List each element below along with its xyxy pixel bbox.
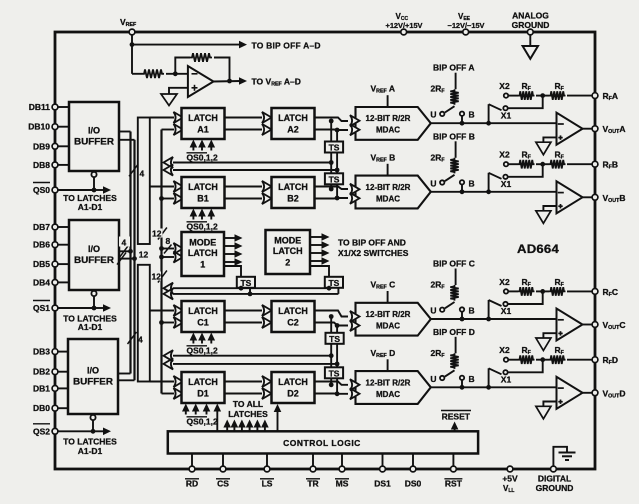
pin VOUT B: [592, 193, 625, 204]
resistor 2RF (B): [450, 158, 458, 174]
svg-text:A1: A1: [197, 125, 209, 135]
wire C1 latch input upper: [150, 310, 174, 312]
tri-state TS (D): [325, 367, 343, 378]
wire op-amp A output: [583, 128, 596, 130]
latch D1: [182, 372, 225, 403]
bus label 12 (upper): [152, 228, 167, 240]
label TO LATCHES A1-D1 (1): [63, 193, 117, 212]
node RF junction (A): [540, 93, 545, 98]
label 2RF (B): [431, 152, 446, 163]
svg-text:DB1: DB1: [33, 383, 50, 393]
pin +5V VLL: [502, 466, 518, 494]
pin MS: [335, 466, 349, 488]
svg-text:DB7: DB7: [33, 222, 50, 232]
wire buffer 2 readback circle: [91, 291, 96, 308]
svg-text:C2: C2: [287, 318, 299, 328]
pin DB7: [33, 222, 69, 232]
resistor feedback R: [190, 53, 212, 62]
wire QS strobe arrows D1: [182, 404, 221, 432]
pin VREF: [120, 17, 137, 35]
svg-text:LATCH: LATCH: [278, 113, 308, 123]
svg-text:QS2: QS2: [33, 426, 50, 436]
wire X1 to RF junction (D): [508, 360, 543, 373]
wire BIP OFF B to 2RF: [455, 141, 457, 158]
wire feedback up: [175, 58, 190, 74]
svg-text:1: 1: [200, 260, 205, 270]
svg-text:X2: X2: [499, 150, 510, 160]
resistor RF1 (A): [518, 81, 535, 100]
node U1 output junction: [227, 79, 232, 84]
svg-text:DB5: DB5: [33, 259, 50, 269]
ground (op-amp C): [536, 338, 551, 351]
MDAC D (12-bit R/2R): [350, 371, 431, 404]
wire U1 output TO VREF A-D: [214, 77, 248, 85]
svg-text:B2: B2: [287, 194, 299, 204]
label VREF D: [371, 348, 396, 359]
bus readback A/B line2: [164, 164, 338, 175]
node X2 contact (D): [499, 345, 510, 362]
bus label 12 (middle): [139, 250, 149, 260]
wire op-amp C output: [583, 324, 596, 326]
wire QS2 to latches arrow: [58, 428, 111, 436]
wire op-amp A + to ground: [543, 137, 556, 142]
svg-text:12-BIT R/2R: 12-BIT R/2R: [366, 378, 411, 387]
label TO VREF A-D: [252, 77, 301, 88]
wire VREF C stub: [387, 291, 389, 303]
pin DB11: [29, 102, 69, 112]
latch B1: [182, 177, 225, 208]
wire gain switch pole (C): [489, 300, 502, 319]
node X2 contact (B): [499, 150, 510, 167]
svg-text:I/O: I/O: [88, 126, 100, 136]
svg-text:DB0: DB0: [33, 403, 50, 413]
svg-text:A1-D1: A1-D1: [78, 446, 103, 456]
label TO ALL LATCHES: [228, 399, 268, 419]
tri-state TS (C): [326, 333, 344, 344]
svg-text:TS: TS: [329, 334, 340, 344]
label BIP OFF A: [433, 63, 475, 73]
svg-text:LATCH: LATCH: [278, 306, 308, 316]
svg-text:RST: RST: [445, 478, 463, 488]
pin TR: [306, 466, 320, 488]
svg-text:X1: X1: [501, 306, 512, 316]
wire mode latch 2 to TS: [310, 266, 329, 277]
latch D2: [272, 372, 315, 403]
wire X2 to RF (A): [509, 95, 518, 97]
svg-text:TO BIP OFF AND: TO BIP OFF AND: [338, 238, 406, 248]
svg-text:A2: A2: [287, 125, 299, 135]
svg-text:I/O: I/O: [88, 244, 100, 254]
control logic box: [168, 431, 478, 453]
op-amp C: [557, 309, 583, 341]
node QS2 junction: [91, 429, 96, 434]
svg-text:X2: X2: [499, 81, 510, 91]
pin RF A: [592, 91, 618, 102]
label QS0,1,2 (B1): [187, 222, 218, 232]
wire A1 to A2 lower: [225, 124, 272, 135]
latch B2: [272, 177, 315, 208]
svg-text:BIP OFF C: BIP OFF C: [433, 259, 475, 269]
svg-text:MDAC: MDAC: [376, 390, 400, 399]
wire QS strobe arrows A1: [190, 140, 216, 151]
svg-text:+12V/+15V: +12V/+15V: [386, 21, 423, 30]
wire A1 to A2 upper: [225, 112, 272, 123]
ground digital (IEC): [553, 447, 575, 466]
svg-text:RD: RD: [186, 478, 198, 488]
wire A2 to MDAC lower: [315, 129, 349, 132]
op-amp B: [557, 181, 583, 213]
bus readback mode line2: [164, 288, 339, 299]
wire X2 to RF (C): [509, 290, 518, 292]
node B contact (A): [460, 110, 475, 124]
wire BIP OFF A to 2RF: [455, 73, 457, 90]
wire C1 latch input lower: [162, 322, 175, 324]
svg-text:B: B: [469, 178, 475, 188]
svg-text:12: 12: [152, 229, 162, 239]
pin DB3: [33, 347, 69, 357]
resistor 2RF (C): [450, 285, 458, 301]
resistor RF1 (C): [518, 277, 535, 296]
wire D1 latch input lower: [162, 393, 175, 395]
svg-text:DB8: DB8: [33, 160, 50, 170]
label TO BIP OFF A-D: [252, 40, 321, 50]
wire RF1-RF2 (C): [536, 290, 549, 292]
svg-text:C1: C1: [197, 318, 209, 328]
svg-text:DB3: DB3: [33, 347, 50, 357]
node pole junction (B): [486, 189, 491, 194]
wire X1 to RF junction (B): [508, 164, 543, 177]
node B junction (A): [460, 121, 465, 126]
svg-text:LATCH: LATCH: [278, 182, 308, 192]
svg-text:U: U: [430, 374, 436, 384]
label TO LATCHES A1-D1 (2): [63, 313, 117, 332]
resistor RF1 (D): [518, 345, 535, 364]
label 2RF (D): [431, 348, 446, 359]
pin DS0: [405, 466, 422, 488]
pin VOUT D: [592, 388, 625, 399]
pin CS: [216, 466, 230, 488]
node A1 input arrows: [174, 112, 184, 135]
wire D1 to D2 upper: [225, 376, 272, 387]
svg-text:QS0,1,2: QS0,1,2: [187, 153, 218, 163]
svg-text:MDAC: MDAC: [376, 126, 400, 135]
wire A1 latch input upper: [150, 117, 174, 119]
pin DB0: [33, 403, 69, 413]
wire bip switch arm (D): [445, 370, 455, 376]
wire TS D verticals: [329, 356, 340, 396]
op-amp U1: [188, 66, 214, 97]
wire A2 to MDAC upper: [315, 118, 349, 122]
wire gain switch pole (D): [489, 368, 502, 387]
svg-text:LATCH: LATCH: [188, 248, 218, 258]
svg-text:MS: MS: [336, 478, 349, 488]
wire A1 latch input lower: [162, 129, 175, 131]
wire control logic pin stubs: [192, 454, 453, 467]
node B contact (B): [460, 178, 475, 192]
I/O buffer 2: [69, 220, 119, 290]
svg-text:B: B: [469, 110, 475, 120]
svg-text:QS0,1,2: QS0,1,2: [187, 417, 218, 427]
label VREF C: [371, 280, 396, 291]
pin DB4: [33, 277, 69, 287]
wire RF1-RF2 (D): [536, 359, 549, 361]
svg-text:U: U: [430, 110, 436, 120]
I/O buffer 1: [69, 102, 119, 171]
svg-text:QS0,1,2: QS0,1,2: [187, 346, 218, 356]
svg-text:X1: X1: [501, 110, 512, 120]
svg-text:MDAC: MDAC: [376, 194, 400, 203]
label 2RF (C): [431, 280, 446, 291]
pin RST: [444, 466, 462, 488]
tri-state TS (B): [325, 173, 343, 184]
wire VREF down to input resistor: [132, 45, 142, 74]
label TO LATCHES A1-D1 (3): [63, 437, 117, 456]
svg-text:+5V: +5V: [502, 474, 518, 484]
wire MDAC D output line: [431, 386, 557, 388]
svg-text:−12V/−15V: −12V/−15V: [448, 21, 485, 30]
mode latch 1: [182, 232, 225, 276]
wire C1 to C2 lower: [225, 317, 272, 328]
pin LS: [260, 466, 274, 488]
node VREF junction: [130, 42, 135, 47]
wire mode latch 1 to TS: [224, 266, 241, 277]
svg-text:DB9: DB9: [33, 141, 50, 151]
pin DB9: [33, 141, 69, 151]
svg-text:AD664: AD664: [517, 244, 559, 256]
svg-text:X2: X2: [499, 277, 510, 287]
svg-text:DB11: DB11: [29, 102, 51, 112]
svg-text:DB4: DB4: [33, 277, 50, 287]
pin QS0: [33, 183, 58, 196]
svg-text:BIP OFF B: BIP OFF B: [433, 131, 475, 141]
wire MDAC C output line: [431, 318, 557, 320]
bus readback C/D line2: [164, 358, 338, 369]
svg-text:BUFFER: BUFFER: [74, 137, 115, 147]
wire D2 to MDAC lower: [315, 393, 349, 395]
pin DB2: [33, 367, 69, 377]
node X2 contact (C): [499, 277, 510, 294]
svg-text:4: 4: [140, 169, 145, 179]
label TO BIP OFF AND X1/X2 SWITCHES: [338, 238, 409, 259]
wire VREF A stub: [387, 95, 389, 107]
wire MDAC B output line: [431, 191, 557, 193]
svg-text:DIGITAL: DIGITAL: [538, 474, 571, 484]
svg-text:DS0: DS0: [405, 478, 422, 488]
svg-text:GROUND: GROUND: [536, 483, 574, 493]
wire buffer3 output taps: [118, 374, 135, 381]
pin VEE: [448, 12, 485, 35]
svg-text:12-BIT R/2R: 12-BIT R/2R: [366, 114, 411, 123]
svg-text:U: U: [430, 178, 436, 188]
label RESET: [441, 411, 471, 422]
svg-text:A1-D1: A1-D1: [78, 322, 103, 332]
svg-text:BIP OFF D: BIP OFF D: [433, 327, 475, 337]
label BIP OFF C: [433, 259, 475, 269]
wire B1 to B2 upper: [225, 181, 272, 192]
svg-text:TO ALL: TO ALL: [233, 399, 263, 409]
wire bip switch arm (C): [445, 302, 455, 308]
wire B1 to B2 lower: [225, 193, 272, 204]
svg-text:LS: LS: [262, 478, 273, 488]
node B junction (C): [460, 317, 465, 322]
bus readback mode line1: [164, 283, 331, 294]
mode latch 2: [266, 230, 311, 274]
svg-text:A1-D1: A1-D1: [78, 202, 103, 212]
node U contact (C): [430, 306, 444, 316]
wire op-amp C + to ground: [543, 333, 556, 338]
bus readback A/B line1: [164, 157, 332, 168]
wire RF2 to pin (A): [567, 95, 595, 97]
svg-text:ANALOG: ANALOG: [512, 11, 549, 21]
MDAC B (12-bit R/2R): [350, 176, 431, 209]
wire TO ALL LATCHES arrows: [223, 420, 268, 432]
svg-text:2: 2: [285, 258, 290, 268]
svg-text:12-BIT R/2R: 12-BIT R/2R: [366, 310, 411, 319]
bus label 4 (buffer3): [128, 332, 144, 345]
svg-text:TS: TS: [329, 143, 340, 153]
svg-text:DB10: DB10: [28, 122, 50, 132]
pin DIGITAL GROUND: [536, 466, 574, 493]
label BIP OFF D: [433, 327, 475, 337]
pin ANALOG GROUND: [512, 11, 550, 35]
wire buffer1 output taps: [119, 132, 135, 140]
label QS0,1,2 (D1): [187, 417, 218, 427]
wire buffer 3 readback circle: [90, 415, 95, 431]
svg-text:TO BIP OFF A–D: TO BIP OFF A–D: [252, 40, 321, 50]
wire BIP OFF C to 2RF: [455, 269, 457, 286]
wire QS1 to latches arrow: [58, 304, 111, 312]
ground (U1 +): [161, 94, 177, 106]
resistor RF1 (B): [518, 150, 535, 169]
bus rect lower segment: [138, 265, 150, 382]
wire B1 latch input upper: [150, 186, 174, 188]
pin RF B: [592, 160, 618, 171]
wire C2 to MDAC lower: [315, 323, 349, 326]
svg-text:LATCH: LATCH: [188, 306, 218, 316]
latch C2: [272, 301, 315, 332]
wire C2 to MDAC upper: [315, 311, 349, 317]
wire RF2 to pin (B): [567, 163, 595, 165]
node U contact (A): [430, 110, 444, 120]
pin QS2: [33, 424, 58, 437]
svg-text:LATCH: LATCH: [278, 377, 308, 387]
ground (op-amp D): [536, 406, 551, 419]
wire C1 to C2 upper: [225, 305, 272, 316]
node RF junction (B): [540, 162, 545, 167]
svg-text:I/O: I/O: [87, 366, 99, 376]
latch C1: [182, 301, 225, 332]
wire bip switch arm (B): [445, 175, 455, 181]
svg-text:12-BIT R/2R: 12-BIT R/2R: [366, 183, 411, 192]
svg-text:LATCH: LATCH: [188, 182, 218, 192]
node X1 contact (B): [501, 175, 512, 189]
bus label 12 (lower): [151, 271, 167, 283]
wire D2 to MDAC upper: [315, 382, 349, 385]
bus label 8 (mode latch): [164, 236, 172, 254]
pin VCC: [386, 12, 423, 35]
svg-text:B: B: [469, 306, 475, 316]
wire D1 to D2 lower: [225, 388, 272, 399]
svg-text:U: U: [430, 306, 436, 316]
svg-text:TR: TR: [307, 478, 318, 488]
node X1 contact (D): [501, 370, 512, 384]
svg-text:BUFFER: BUFFER: [73, 377, 114, 387]
wire RF1-RF2 (B): [536, 163, 549, 165]
svg-text:LATCHES: LATCHES: [228, 409, 268, 419]
MDAC A (12-bit R/2R): [350, 107, 431, 140]
wire mode latch 2 output arrows: [310, 233, 330, 265]
wire X2 to RF (D): [509, 359, 518, 361]
MDAC C (12-bit R/2R): [350, 303, 431, 336]
wire VREF stub down: [131, 35, 133, 45]
wire op-amp B output: [583, 196, 596, 198]
node U contact (D): [430, 374, 444, 384]
wire control to latch D2: [274, 404, 282, 431]
wire RF2 to pin (C): [567, 290, 595, 292]
pin RD: [185, 466, 199, 488]
wire RESET arrow: [451, 422, 459, 432]
svg-text:CONTROL LOGIC: CONTROL LOGIC: [283, 438, 361, 448]
svg-text:DB2: DB2: [33, 367, 50, 377]
wire buffer2 output taps: [119, 251, 135, 258]
svg-text:8: 8: [166, 236, 171, 246]
node B contact (D): [460, 374, 475, 388]
svg-text:D1: D1: [197, 389, 209, 399]
bus rail R2: [133, 140, 135, 380]
svg-text:TS: TS: [329, 174, 340, 184]
wire gain switch pole (A): [489, 104, 502, 123]
node feedback junction: [173, 71, 178, 76]
wire op-amp B + to ground: [543, 206, 556, 211]
svg-text:4: 4: [138, 335, 143, 345]
latch A1: [182, 108, 225, 139]
svg-text:BUFFER: BUFFER: [74, 255, 115, 265]
svg-text:QS1: QS1: [33, 303, 50, 313]
svg-text:MODE: MODE: [274, 236, 301, 246]
wire TS C verticals: [329, 314, 340, 366]
svg-text:X1/X2 SWITCHES: X1/X2 SWITCHES: [338, 248, 409, 258]
bus rail R5: [160, 130, 162, 394]
svg-text:12: 12: [139, 250, 149, 260]
svg-text:DB6: DB6: [33, 240, 50, 250]
op-amp A: [557, 113, 583, 145]
pin DB10: [28, 122, 69, 132]
svg-text:QS0,1,2: QS0,1,2: [187, 222, 218, 232]
wire X1 to RF junction (A): [508, 96, 543, 109]
wire TO BIP OFF A-D: [132, 41, 247, 49]
svg-text:B: B: [469, 374, 475, 384]
svg-text:TS: TS: [329, 368, 340, 378]
resistor RF2 (C): [549, 277, 566, 296]
resistor input R: [142, 70, 164, 79]
wire buffer 1 readback circle: [91, 172, 96, 190]
label VREF A: [371, 84, 395, 95]
tri-state TS (ML1): [237, 277, 255, 288]
node RF junction (D): [540, 357, 545, 362]
wire X2 to RF (B): [509, 163, 518, 165]
node C1 input arrows: [174, 305, 184, 328]
svg-text:QS0: QS0: [33, 185, 50, 195]
resistor RF2 (A): [549, 81, 566, 100]
wire op-amp D + to ground: [543, 402, 556, 407]
pin RF D: [592, 355, 618, 366]
label VREF B: [371, 152, 396, 163]
wire QS0 to latches arrow: [58, 186, 111, 194]
wire gain switch pole (B): [489, 173, 502, 192]
wire mode latch 1 inputs: [162, 243, 184, 263]
node X2 contact (A): [499, 81, 510, 98]
svg-text:BIP OFF A: BIP OFF A: [433, 63, 475, 73]
